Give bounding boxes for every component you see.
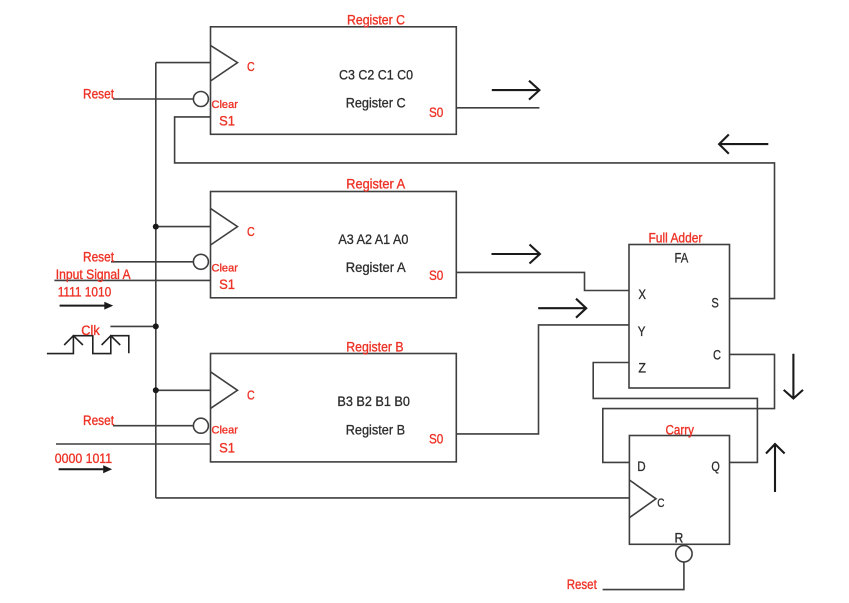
wire clock to register A	[156, 226, 211, 228]
svg-text:S0: S0	[429, 268, 443, 283]
full adder box U4	[629, 245, 730, 389]
svg-text:C: C	[657, 496, 664, 510]
svg-text:0000 1011: 0000 1011	[55, 451, 112, 466]
svg-text:X: X	[638, 287, 646, 302]
carry flip-flop clock triangle	[629, 480, 656, 518]
svg-text:Z: Z	[638, 361, 646, 376]
clock waveform symbol	[47, 336, 129, 354]
register A clock triangle	[211, 208, 238, 245]
svg-text:1111 1010: 1111 1010	[58, 285, 111, 300]
svg-text:Reset: Reset	[567, 577, 597, 592]
svg-text:Reset: Reset	[83, 413, 114, 428]
wire register C S0 output	[457, 107, 540, 109]
arrow filled under 0000 1011	[59, 465, 113, 473]
register C box U1	[211, 27, 457, 135]
svg-text:Clear: Clear	[212, 425, 239, 437]
wire register A S0 to full adder X	[457, 272, 630, 290]
svg-text:Y: Y	[638, 324, 646, 339]
arrow up on Q feedback	[766, 444, 785, 492]
junction node clock-register A	[153, 224, 159, 230]
svg-text:Register B: Register B	[346, 423, 405, 438]
arrow right at register C output	[492, 81, 540, 100]
svg-text:FA: FA	[675, 250, 689, 265]
svg-text:Reset: Reset	[83, 87, 114, 102]
wire reset to register A clear	[111, 261, 193, 263]
svg-text:Register A: Register A	[346, 177, 405, 192]
svg-text:Full Adder: Full Adder	[649, 231, 703, 246]
svg-text:C: C	[247, 59, 255, 74]
svg-text:Input Signal A: Input Signal A	[56, 267, 131, 282]
wire clock to register C	[156, 62, 211, 64]
wire register B S0 to full adder Y	[457, 325, 630, 434]
wire clock to carry flip-flop	[156, 497, 630, 499]
wire full adder C to carry D	[603, 354, 775, 462]
svg-text:C3 C2 C1 C0: C3 C2 C1 C0	[339, 68, 413, 83]
wire clock bus vertical	[155, 63, 157, 498]
svg-text:Register C: Register C	[347, 12, 405, 27]
svg-text:C: C	[247, 224, 255, 239]
svg-text:Reset: Reset	[83, 250, 114, 265]
register B clock triangle	[211, 372, 238, 409]
svg-text:Register B: Register B	[346, 340, 403, 355]
svg-text:S0: S0	[429, 105, 443, 120]
arrow left on S feedback line	[719, 135, 768, 154]
junction node clock-register B	[153, 387, 159, 393]
svg-text:S: S	[711, 296, 718, 311]
register B box U3	[211, 354, 457, 462]
svg-text:Clear: Clear	[212, 263, 239, 275]
svg-text:C: C	[247, 387, 255, 402]
register A box U2	[211, 192, 457, 298]
svg-text:D: D	[637, 459, 646, 474]
register C clock triangle	[211, 45, 238, 81]
arrow right at register A output	[492, 245, 540, 264]
arrow right on Y input line	[538, 299, 586, 318]
svg-text:S1: S1	[219, 114, 235, 129]
junction node clk input	[153, 323, 159, 329]
svg-text:A3 A2 A1 A0: A3 A2 A1 A0	[338, 232, 408, 247]
svg-text:R: R	[675, 530, 684, 545]
carry flip-flop reset bubble	[676, 546, 692, 562]
arrow filled under 1111 1010	[60, 302, 114, 310]
wire input B to register B S1	[56, 443, 211, 445]
arrow down on C feedback	[784, 354, 803, 399]
wire reset to register C clear	[113, 98, 193, 100]
svg-text:Q: Q	[711, 459, 719, 474]
register B clear bubble	[193, 418, 208, 433]
wire full adder S output feedback to register C S1	[175, 117, 775, 299]
register C clear bubble	[193, 92, 208, 107]
svg-text:C: C	[713, 347, 721, 362]
wire reset to carry R	[603, 562, 684, 590]
wire input signal A to register A S1	[54, 279, 210, 281]
wire clk stub	[110, 325, 155, 327]
svg-text:Clk: Clk	[81, 323, 100, 338]
wire clock to register B	[156, 389, 211, 391]
wire reset to register B clear	[113, 425, 193, 427]
register A clear bubble	[193, 254, 208, 269]
svg-text:S1: S1	[219, 277, 235, 292]
wire carry Q to full adder Z	[593, 363, 757, 463]
svg-text:Register A: Register A	[346, 260, 406, 275]
svg-text:S1: S1	[219, 441, 235, 456]
svg-text:S0: S0	[429, 432, 443, 447]
svg-text:Clear: Clear	[212, 99, 239, 111]
svg-text:Carry: Carry	[666, 423, 695, 438]
carry flip-flop box U5	[629, 436, 729, 545]
svg-text:Register C: Register C	[346, 95, 406, 110]
svg-text:B3 B2 B1 B0: B3 B2 B1 B0	[337, 394, 410, 409]
